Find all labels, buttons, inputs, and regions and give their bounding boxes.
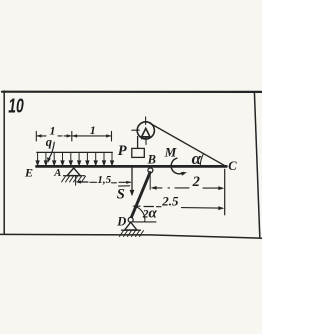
force S line (131, 168, 133, 191)
svg-text:E: E (24, 166, 33, 180)
svg-text:1,5: 1,5 (97, 174, 111, 186)
pulley axis tick top (145, 117, 147, 125)
hinge B (148, 168, 153, 173)
table cell top border (2, 91, 262, 93)
pin support at D (125, 222, 137, 230)
beam E-A-B-C (37, 165, 227, 168)
svg-text:10: 10 (8, 94, 24, 117)
rope from pulley to weight P (137, 137, 139, 149)
dimension extension tick middle (71, 131, 73, 141)
pin support at A (67, 168, 80, 176)
svg-text:S: S (117, 186, 125, 202)
dimension 2 line (156, 187, 219, 189)
pulley mount hatching (142, 137, 149, 139)
svg-text:2: 2 (192, 174, 200, 190)
svg-text:C: C (228, 159, 237, 173)
moment M arc arrow (171, 158, 183, 174)
hatching under support D (120, 231, 144, 237)
svg-text:B: B (147, 152, 156, 166)
pulley wheel (137, 122, 154, 139)
dimension 1.5 line (77, 181, 131, 184)
table cell left border (3, 91, 5, 234)
angle 2a arc (136, 207, 145, 222)
table cell right border (254, 92, 259, 237)
svg-text:D: D (116, 215, 126, 229)
extension line below A (75, 177, 77, 186)
dimension line 1 (left span) (37, 135, 71, 137)
extension line below B (149, 173, 151, 189)
pulley mount triangle (142, 128, 150, 136)
extension line below C (224, 169, 226, 215)
pulley axis tick bottom (145, 137, 147, 145)
rope from pulley to C (150, 123, 226, 166)
weight P box (132, 148, 145, 157)
angle alpha arc (200, 154, 203, 166)
bar BD (131, 173, 150, 219)
svg-text:2.5: 2.5 (161, 194, 179, 209)
pulley axis tick left (132, 129, 140, 131)
svg-text:M: M (164, 145, 177, 160)
angle 2a reference line (134, 221, 157, 223)
svg-text:1: 1 (50, 124, 56, 138)
distributed load arrows (36, 152, 113, 165)
hatching under support A (62, 176, 86, 182)
distributed load top line (37, 151, 113, 153)
svg-text:1: 1 (90, 123, 96, 137)
force S label with overbar (119, 185, 130, 187)
dimension extension tick right (111, 131, 113, 141)
dimension 2.5 line (134, 206, 219, 208)
svg-text:2α: 2α (142, 206, 158, 222)
svg-text:P: P (118, 143, 127, 159)
q leader arrow (49, 142, 55, 159)
table cell bottom border (0, 234, 262, 238)
dimension line 1 (right span) (73, 135, 111, 137)
dimension extension tick left (35, 131, 37, 141)
svg-text:A: A (53, 168, 61, 179)
hinge D (128, 217, 133, 222)
